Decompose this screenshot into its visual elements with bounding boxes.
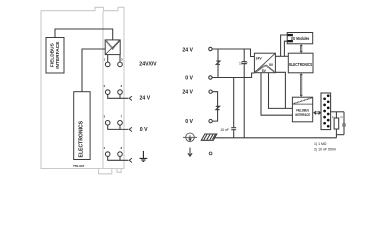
wire converter bottom out 1 [269, 73, 293, 109]
wire row 2 bus [108, 94, 129, 98]
functional earth symbol [183, 133, 197, 142]
capacitor 10nF system [242, 49, 247, 138]
fieldbus connector [321, 93, 331, 130]
svg-text:5V: 5V [262, 69, 267, 73]
io modules box [287, 33, 313, 44]
electronics box (left module) [74, 92, 90, 160]
wire 24V rail [212, 49, 254, 57]
svg-text:2) 10 nF 500V: 2) 10 nF 500V [314, 148, 337, 152]
terminal circle small [209, 152, 212, 155]
plug chevron row 4 [129, 158, 132, 162]
terminal contacts row 2 (24V) [105, 90, 122, 95]
svg-text:6: 6 [121, 84, 123, 88]
wire 24V field [212, 92, 217, 121]
wire row 3 bus [108, 125, 129, 129]
dc/dc converter (left module) [105, 40, 120, 55]
resistor 1 Mohm [334, 112, 339, 138]
terminal contacts row 3 (0V) [105, 121, 122, 126]
svg-text:5: 5 [121, 57, 123, 61]
svg-text:8: 8 [121, 146, 123, 150]
terminal 0V system [209, 76, 212, 79]
svg-text:I/O Modules: I/O Modules [291, 36, 310, 41]
terminal 0V field [209, 119, 212, 122]
svg-text:4: 4 [104, 146, 106, 150]
suppressor diode field side [216, 106, 220, 109]
terminal 24V field [209, 90, 212, 93]
suppressor diode system side [216, 49, 220, 78]
bus arrow fieldbus-connector [313, 111, 321, 115]
svg-text:ELECTRONICS: ELECTRONICS [289, 62, 312, 67]
svg-text:10 nF: 10 nF [220, 128, 229, 132]
svg-text:3: 3 [104, 115, 106, 119]
svg-text:750-637: 750-637 [73, 164, 85, 168]
power jumper contacts row 1 [105, 62, 122, 67]
earth arrow symbol [188, 148, 192, 157]
wire connector shield [331, 111, 344, 113]
wire riser to io stub 1 [281, 35, 288, 56]
svg-text:INTERFACE: INTERFACE [295, 112, 310, 117]
wire converter 0V out to fieldbus [275, 72, 285, 108]
wire 5V to electronics [275, 55, 288, 57]
bus arrow io-electronics [300, 44, 303, 53]
wire electronics to converter [82, 49, 105, 92]
svg-text:2): 2) [340, 115, 342, 119]
fieldbus interface box (right) [292, 97, 312, 122]
wire 0V rail [212, 73, 254, 78]
terminal contacts row 4 (earth) [105, 152, 122, 157]
svg-text:INTERFACE: INTERFACE [55, 41, 61, 69]
plug chevron row 3 [129, 127, 132, 131]
earth symbol row 4 [140, 151, 148, 162]
fieldbus interface U1 (left module) [46, 38, 64, 74]
dc/dc converter 24V/5V [254, 53, 275, 73]
svg-text:5V: 5V [269, 63, 274, 67]
svg-text:ELECTRONICS: ELECTRONICS [79, 120, 85, 157]
svg-text:24 V: 24 V [182, 90, 193, 96]
contact stub 2 [288, 40, 293, 42]
wire riser to io stub 2 [284, 41, 287, 56]
din rail hatched symbol [201, 134, 217, 140]
module body outline 750-637 [41, 7, 124, 174]
wire converter to jumper contacts [108, 55, 120, 62]
svg-text:1) 1 MΩ: 1) 1 MΩ [314, 142, 327, 146]
svg-text:0 V: 0 V [185, 119, 193, 125]
capacitor 10nF to rail [231, 78, 236, 138]
svg-text:24V/0V: 24V/0V [139, 62, 157, 68]
bus arrow electronics-fieldbus [300, 73, 303, 97]
wire row 4 bus [108, 156, 129, 160]
plug chevron row 2 [129, 96, 132, 100]
terminal 24V system [209, 47, 212, 50]
electronics box (right) [288, 53, 313, 73]
svg-text:0 V: 0 V [140, 127, 148, 133]
svg-text:24 V: 24 V [182, 47, 193, 53]
capacitor 10nF 500V [336, 112, 345, 135]
svg-text:0 V: 0 V [185, 76, 193, 82]
svg-text:24 V: 24 V [140, 96, 151, 102]
wire earth rail [217, 137, 337, 139]
svg-text:7: 7 [121, 115, 123, 119]
wire fieldbus interface to converter [55, 29, 113, 40]
wire converter bottom out 2 [261, 73, 293, 116]
svg-text:FIELDBUS: FIELDBUS [50, 42, 56, 67]
svg-text:24V: 24V [256, 57, 263, 61]
contact stub 1 [288, 34, 293, 36]
svg-text:1: 1 [104, 57, 106, 61]
svg-text:2: 2 [104, 84, 106, 88]
